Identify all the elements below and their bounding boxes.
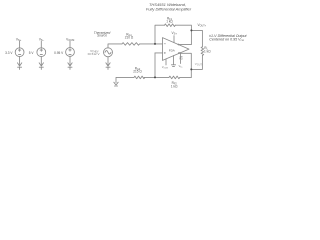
resistor RF2 1 kohm: [169, 76, 180, 79]
svg-text:VS−: VS−: [39, 37, 45, 42]
resistor RG2 215 ohm: [134, 76, 145, 79]
voltage source V3 (VOCM 0.95 V): [66, 41, 75, 66]
wire + input: [155, 52, 163, 54]
VS+ supply pin on top: [173, 36, 175, 43]
svg-text:±0.512 V: ±0.512 V: [88, 52, 100, 56]
plus input mark: [164, 52, 166, 54]
ground under VTHEV: [106, 63, 110, 70]
wire feedback up from node A: [155, 25, 165, 44]
svg-text:1 kΩ: 1 kΩ: [204, 49, 211, 53]
wire node B to RF2: [155, 76, 169, 78]
PD overline: [180, 56, 183, 58]
svg-text:0.95 V: 0.95 V: [54, 51, 64, 55]
input polarity marks: [164, 43, 183, 56]
plus output mark: [178, 43, 180, 45]
PD pin stub: [180, 53, 182, 64]
VOCM pin stub: [165, 59, 167, 65]
resistor RF1 1 kohm: [165, 24, 176, 27]
svg-text:FDA: FDA: [169, 49, 175, 53]
svg-text:VS+: VS+: [16, 37, 22, 42]
svg-text:1 kΩ: 1 kΩ: [171, 85, 178, 89]
svg-text:Centered on 0.95 VCM: Centered on 0.95 VCM: [209, 37, 244, 42]
resistor RL 1 kohm (vertical): [201, 47, 204, 56]
ground at RG2: [114, 82, 118, 86]
output OUT+ stub: [178, 30, 192, 44]
svg-text:VOCM: VOCM: [66, 37, 74, 42]
mini ground on VS- pin: [171, 65, 175, 67]
ground under V1: [17, 63, 21, 70]
svg-text:VOUT+: VOUT+: [198, 23, 207, 28]
wire Vout+ node to RL top: [191, 30, 202, 46]
ground under V2: [39, 63, 43, 70]
minus input mark: [164, 43, 166, 45]
svg-text:3.3 V: 3.3 V: [5, 51, 13, 55]
resistor RG1 210 ohm: [122, 43, 140, 46]
wire RL bottom to Vout- node: [191, 55, 202, 69]
svg-text:VOUT−: VOUT−: [195, 62, 204, 67]
wire RF1 to Vout+ node: [175, 25, 191, 30]
op-amp U1 FDA triangle: [163, 38, 190, 61]
ground under V3: [68, 63, 72, 70]
output OUT- stub: [178, 53, 191, 77]
voltage source V1 (VS+ 3.3 V): [15, 41, 24, 66]
svg-text:210 Ω: 210 Ω: [125, 36, 134, 40]
wire RF2 to Vout- node: [180, 76, 192, 78]
wire thev top to RG1: [108, 44, 122, 48]
voltage source V2 (VS- 5 V): [37, 41, 46, 66]
svg-text:Source: Source: [97, 34, 107, 38]
junction node Vout-: [190, 68, 192, 70]
bottom rail left to RG2: [144, 76, 155, 78]
wire RG1 to inverting input: [140, 43, 163, 45]
junction node A (inverting input): [154, 43, 156, 45]
svg-text:VS+: VS+: [179, 65, 183, 68]
junction node Vout+: [190, 29, 192, 31]
minus output mark: [178, 52, 180, 54]
svg-text:215 Ω: 215 Ω: [133, 69, 142, 73]
junction node B (bottom rail): [154, 76, 156, 78]
svg-text:PD: PD: [179, 57, 183, 60]
svg-text:VS+: VS+: [172, 31, 178, 36]
svg-text:1 kΩ: 1 kΩ: [166, 19, 173, 23]
svg-text:VOCM: VOCM: [162, 66, 168, 69]
wire + input down to bottom rail: [154, 53, 156, 78]
wire RG2 left to ground: [116, 77, 134, 82]
AC Thevenin source VTHEV: [104, 48, 113, 66]
svg-text:Fully Differential Amplifier: Fully Differential Amplifier: [146, 7, 192, 12]
VS- pin stub: [173, 56, 175, 65]
